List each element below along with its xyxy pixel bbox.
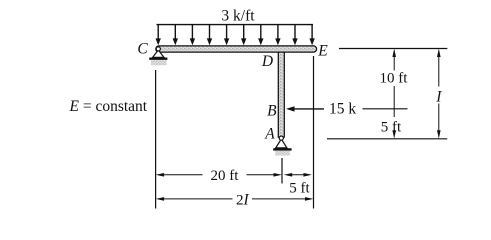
svg-text:15 k: 15 k: [329, 101, 356, 118]
beam CE: [156, 46, 317, 52]
svg-text:10 ft: 10 ft: [380, 71, 409, 87]
load arrow 3: [190, 25, 195, 46]
svg-text:E = constant: E = constant: [69, 98, 148, 115]
distributed load top line: [157, 24, 314, 26]
dimension line 2I: [156, 197, 314, 201]
load arrow 7: [258, 25, 263, 46]
dimension line I (far right): [437, 49, 441, 139]
extension line at A level (right): [327, 138, 447, 140]
pin support A: [273, 136, 291, 156]
extension line at E level (right): [339, 48, 447, 50]
dimension line 10 ft / 5 ft: [392, 49, 396, 139]
svg-text:B: B: [267, 102, 277, 119]
load arrow 10: [309, 25, 314, 46]
load arrow 4: [207, 25, 212, 46]
load arrow 8: [275, 25, 280, 46]
svg-text:20 ft: 20 ft: [211, 168, 240, 184]
svg-text:I: I: [435, 89, 442, 106]
load arrow 9: [292, 25, 297, 46]
column DA: [278, 52, 284, 137]
dimension line 5 ft (bottom): [284, 173, 312, 177]
svg-text:I: I: [243, 191, 250, 208]
load arrow 2: [173, 25, 178, 46]
load arrow 6: [241, 25, 246, 46]
svg-text:A: A: [264, 126, 275, 143]
extension line below A: [281, 158, 283, 184]
leader line right of 15 k: [363, 108, 408, 110]
extension line below E: [313, 56, 315, 209]
svg-text:C: C: [137, 40, 148, 57]
svg-text:5 ft: 5 ft: [289, 180, 310, 196]
force 15 k arrow: [286, 106, 324, 111]
svg-text:2: 2: [236, 192, 244, 208]
dimension line 20 ft: [156, 173, 282, 177]
load arrow 5: [224, 25, 229, 46]
svg-text:5 ft: 5 ft: [381, 120, 402, 136]
pin support C: [149, 47, 167, 65]
load arrow 1: [156, 25, 161, 46]
extension line below C: [155, 70, 157, 209]
svg-text:3 k/ft: 3 k/ft: [221, 8, 255, 25]
svg-text:D: D: [261, 53, 273, 70]
svg-text:E: E: [317, 43, 328, 60]
